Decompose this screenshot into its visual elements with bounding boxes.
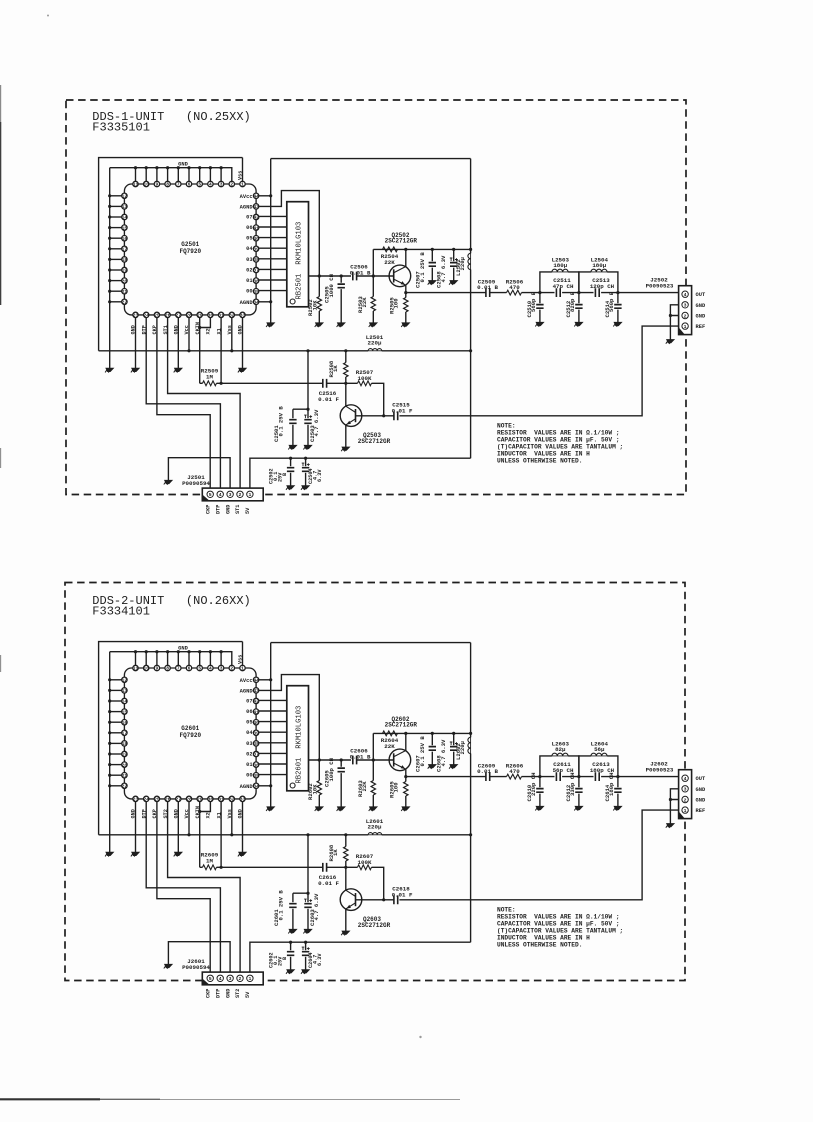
svg-text:4.7 6.3V: 4.7 6.3V xyxy=(440,739,447,766)
resistor R2507 100K xyxy=(346,369,386,417)
inductor L2503 xyxy=(540,256,579,292)
note text block xyxy=(497,422,623,464)
wire to J out xyxy=(601,291,679,294)
capacitor C2515 0.01 F xyxy=(392,402,413,421)
svg-text:RKM10LG103: RKM10LG103 xyxy=(295,706,303,749)
ground C2605 xyxy=(337,807,345,811)
inductor L2601 220u xyxy=(366,818,384,835)
svg-text:56µ: 56µ xyxy=(594,746,605,753)
svg-text:3: 3 xyxy=(229,976,232,982)
svg-text:14: 14 xyxy=(122,215,128,221)
svg-text:42: 42 xyxy=(253,699,259,705)
svg-text:5V: 5V xyxy=(245,507,251,514)
svg-text:820p B: 820p B xyxy=(569,291,576,312)
svg-text:22K: 22K xyxy=(384,743,395,750)
resistor R2608 1K xyxy=(328,835,348,868)
svg-text:06: 06 xyxy=(246,709,252,715)
svg-text:0.1 25V B: 0.1 25V B xyxy=(277,890,284,921)
ground pin27 xyxy=(174,852,182,856)
svg-text:22K: 22K xyxy=(361,781,368,792)
svg-text:1: 1 xyxy=(248,976,251,982)
svg-text:19: 19 xyxy=(122,752,128,758)
wire pin1 Vss to top rail xyxy=(242,158,244,182)
resistor R2606 470 xyxy=(506,762,524,779)
svg-text:3: 3 xyxy=(220,182,223,188)
svg-text:03: 03 xyxy=(246,741,252,747)
svg-text:GND: GND xyxy=(225,989,231,998)
wire AVcc pin44 xyxy=(259,194,272,197)
wire to J out xyxy=(601,775,679,778)
ground R2502 xyxy=(315,323,323,327)
svg-text:18: 18 xyxy=(122,257,128,263)
inductor L2603 xyxy=(540,740,579,776)
svg-text:0.1 25V B: 0.1 25V B xyxy=(419,736,426,767)
ground C2514 xyxy=(613,322,621,326)
AVcc label xyxy=(240,678,253,684)
svg-text:180µ: 180µ xyxy=(553,262,567,269)
svg-text:RESISTOR VALUES ARE IN Ω.1/10: RESISTOR VALUES ARE IN Ω.1/10W ; xyxy=(497,429,620,436)
wire pin27 gnd xyxy=(177,318,179,368)
svg-text:AVcc: AVcc xyxy=(240,678,253,684)
svg-text:Vss: Vss xyxy=(238,171,244,180)
ground J connector xyxy=(666,824,674,828)
ground C2510 xyxy=(535,322,543,326)
svg-text:2: 2 xyxy=(684,797,687,803)
Q2603 label xyxy=(358,916,391,929)
wire q03 collector xyxy=(345,383,347,406)
svg-text:RB2501: RB2501 xyxy=(295,274,303,300)
svg-text:G2501: G2501 xyxy=(181,241,199,248)
ROM RB2601 RKM10LG103 body xyxy=(287,686,309,791)
svg-text:15: 15 xyxy=(122,709,128,715)
wire c16 to node xyxy=(327,866,348,869)
node filter B xyxy=(577,291,580,294)
wire pin28 Vcc xyxy=(188,318,190,351)
wire pin31 X1 xyxy=(220,318,223,385)
svg-text:21: 21 xyxy=(122,773,128,779)
svg-text:0.01 F: 0.01 F xyxy=(318,396,339,403)
ground C2602 xyxy=(286,970,294,974)
wire Vcc rail xyxy=(99,833,471,836)
svg-text:NOTE:: NOTE: xyxy=(497,422,516,429)
svg-text:17: 17 xyxy=(122,731,128,737)
svg-text:5: 5 xyxy=(209,492,212,498)
Q2502 label xyxy=(385,232,418,245)
connector J2602 pin names xyxy=(696,776,706,814)
svg-text:REF: REF xyxy=(696,324,706,330)
svg-text:29: 29 xyxy=(197,797,203,803)
svg-text:3: 3 xyxy=(229,492,232,498)
node filter B xyxy=(577,775,580,778)
wire pin1 Vss to top rail xyxy=(242,642,244,666)
wire right rail upper xyxy=(469,643,472,738)
svg-text:REF: REF xyxy=(696,808,706,814)
IC name label xyxy=(179,725,201,739)
IC pin circles xyxy=(122,665,259,801)
IC pin circles xyxy=(122,181,259,317)
ground C2505 xyxy=(337,323,345,327)
ground pin33 xyxy=(238,368,246,372)
ground pin27 xyxy=(174,368,182,372)
ground C2607 xyxy=(428,765,436,769)
wire vcc drop xyxy=(293,349,310,411)
svg-text:4.7 6.3V: 4.7 6.3V xyxy=(313,409,320,436)
svg-text:00: 00 xyxy=(246,289,252,295)
svg-text:INDUCTOR VALUES ARE IN H: INDUCTOR VALUES ARE IN H xyxy=(497,450,590,457)
ground R2605 xyxy=(401,807,409,811)
wire left pin bus xyxy=(108,652,121,853)
wire left pin bus xyxy=(108,168,121,369)
svg-text:GND: GND xyxy=(225,505,231,514)
svg-text:OUT: OUT xyxy=(696,292,706,298)
resistor R2603 22K xyxy=(357,760,376,807)
svg-text:6: 6 xyxy=(188,666,191,672)
svg-text:02: 02 xyxy=(246,751,252,757)
svg-text:AVcc: AVcc xyxy=(240,194,253,200)
svg-text:4: 4 xyxy=(684,292,687,298)
svg-text:5V: 5V xyxy=(245,991,251,998)
connector J2501 pins xyxy=(207,491,253,498)
svg-text:FQ7920: FQ7920 xyxy=(179,248,201,255)
GND net label xyxy=(178,646,188,652)
wire pin29/30 CKIN X2 xyxy=(198,802,210,868)
resistor R2604 22K xyxy=(381,731,399,750)
svg-text:560p B: 560p B xyxy=(530,291,537,312)
svg-text:39: 39 xyxy=(253,247,259,253)
data bit labels 07-00 xyxy=(246,698,253,778)
ground C2512 xyxy=(574,322,582,326)
capacitor C2516 0.01 F xyxy=(318,379,339,403)
wire c09-r06 xyxy=(490,776,507,778)
svg-text:33: 33 xyxy=(240,797,246,803)
svg-text:B: B xyxy=(282,957,288,960)
svg-text:33: 33 xyxy=(240,313,246,319)
capacitor C2513 xyxy=(590,277,615,297)
svg-text:35: 35 xyxy=(253,289,259,295)
svg-text:20: 20 xyxy=(122,278,128,284)
svg-text:0.1 25V B: 0.1 25V B xyxy=(419,252,426,283)
svg-text:1M: 1M xyxy=(206,373,213,380)
ground C2508 xyxy=(449,281,457,285)
resistor R2508 1K xyxy=(328,351,348,384)
wire REF line xyxy=(399,326,678,416)
svg-text:5: 5 xyxy=(198,666,201,672)
wire AGND pin34 xyxy=(259,785,271,787)
svg-text:ST1: ST1 xyxy=(235,505,241,514)
svg-text:UNLESS OTHERWISE NOTED.: UNLESS OTHERWISE NOTED. xyxy=(497,457,582,464)
svg-text:1: 1 xyxy=(241,182,244,188)
svg-text:330p CH: 330p CH xyxy=(569,773,576,797)
svg-text:4: 4 xyxy=(219,976,222,982)
wire Vss top line xyxy=(99,158,243,351)
svg-text:6.3V: 6.3V xyxy=(317,469,323,482)
wire emitter to C2509 xyxy=(406,776,486,778)
svg-text:16: 16 xyxy=(122,720,128,726)
wire pin26 ST2 route xyxy=(168,802,241,975)
svg-text:13: 13 xyxy=(122,688,128,694)
wire q03 emitter xyxy=(345,909,347,931)
wire c11-c13 xyxy=(562,776,593,778)
svg-text:25: 25 xyxy=(154,313,160,319)
ground R2603 xyxy=(369,807,377,811)
svg-text:30: 30 xyxy=(208,797,214,803)
resistor R2607 100K xyxy=(346,853,386,901)
ground pin23 xyxy=(131,852,139,856)
svg-text:42: 42 xyxy=(253,215,259,221)
svg-text:G2601: G2601 xyxy=(181,725,199,732)
wire pin33 gnd xyxy=(242,318,244,368)
svg-text:12: 12 xyxy=(122,678,128,684)
unit border DDS-2-UNIT (NO.26XX) xyxy=(65,583,685,981)
connector J2501 body xyxy=(202,488,263,501)
svg-text:22: 22 xyxy=(122,784,128,790)
wire emitter xyxy=(404,285,407,294)
svg-text:3: 3 xyxy=(684,303,687,309)
ground J connector xyxy=(666,340,674,344)
wire Vss top line xyxy=(99,642,243,835)
svg-text:00: 00 xyxy=(246,773,252,779)
connector J2502 P0090523 label xyxy=(646,276,674,289)
note text block xyxy=(497,906,623,948)
wire ROM output xyxy=(309,274,352,277)
title text xyxy=(92,594,250,619)
svg-text:6.3V: 6.3V xyxy=(317,953,323,966)
svg-text:44: 44 xyxy=(253,194,259,200)
svg-text:5: 5 xyxy=(198,182,201,188)
svg-text:24: 24 xyxy=(143,797,149,803)
svg-text:16: 16 xyxy=(122,236,128,242)
ground C2614 xyxy=(613,806,621,810)
wire q03 emitter xyxy=(345,425,347,447)
ground C2604 xyxy=(301,970,309,974)
AGND pin34 label xyxy=(240,784,254,790)
svg-text:28: 28 xyxy=(186,797,192,803)
capacitor C2506 0.01 B xyxy=(350,263,371,280)
svg-text:23: 23 xyxy=(133,313,139,319)
svg-text:1: 1 xyxy=(241,666,244,672)
svg-text:B: B xyxy=(282,473,288,476)
svg-text:41: 41 xyxy=(253,225,259,231)
svg-text:18: 18 xyxy=(122,741,128,747)
svg-text:11: 11 xyxy=(133,666,139,672)
capacitor C2608 xyxy=(436,733,458,772)
transistor Q2502 2SC2712GR xyxy=(389,265,411,287)
wire REF line xyxy=(399,810,678,900)
svg-text:28: 28 xyxy=(186,313,192,319)
wire right rail lower xyxy=(469,754,472,943)
svg-text:100p CH: 100p CH xyxy=(328,758,335,782)
svg-text:2: 2 xyxy=(684,313,687,319)
wire Vcc rail xyxy=(99,349,471,352)
Q2503 label xyxy=(358,432,391,445)
svg-text:CKP: CKP xyxy=(205,989,211,998)
svg-text:2SC2712GR: 2SC2712GR xyxy=(385,238,418,245)
svg-text:F3335101: F3335101 xyxy=(92,121,150,135)
capacitor C2505 xyxy=(324,274,345,323)
wire pin25 CKP route xyxy=(157,802,210,975)
svg-text:(T)CAPACITOR VALUES ARE TANTAL: (T)CAPACITOR VALUES ARE TANTALUM ; xyxy=(497,927,623,934)
wire pin32 Vss xyxy=(231,318,233,351)
wire pin24 DTP route xyxy=(146,318,220,491)
svg-text:3: 3 xyxy=(684,787,687,793)
ground C2503 xyxy=(303,445,311,449)
wire collector rail xyxy=(373,732,470,760)
title text xyxy=(92,110,250,135)
svg-text:35: 35 xyxy=(253,773,259,779)
IC pin numbers xyxy=(122,182,259,319)
svg-text:38: 38 xyxy=(253,741,259,747)
svg-text:0.01 F: 0.01 F xyxy=(392,408,413,415)
wire right rail upper xyxy=(469,159,472,254)
capacitor C2511 xyxy=(553,277,574,297)
wire pin24 DTP route xyxy=(146,802,220,975)
svg-text:GND: GND xyxy=(696,798,706,804)
capacitor C2610 xyxy=(526,773,544,807)
wire pin29/30 CKIN X2 xyxy=(198,318,210,384)
svg-text:38: 38 xyxy=(253,257,259,263)
resistor R2505 100 xyxy=(388,293,408,323)
wire AVcc/AGND vertical bus xyxy=(269,643,272,807)
svg-text:6: 6 xyxy=(188,182,191,188)
capacitor C2508 xyxy=(436,249,458,288)
svg-text:10K: 10K xyxy=(311,784,318,795)
svg-text:2: 2 xyxy=(239,976,242,982)
IC G2501 FQ7920 body xyxy=(124,184,256,315)
inductor L2502 220u xyxy=(455,253,471,276)
svg-text:Vss: Vss xyxy=(238,655,244,664)
svg-text:07: 07 xyxy=(246,214,252,220)
svg-text:47p CH: 47p CH xyxy=(553,283,574,290)
svg-text:82µ: 82µ xyxy=(555,746,566,753)
svg-text:12: 12 xyxy=(122,194,128,200)
svg-text:01: 01 xyxy=(246,762,252,768)
ground C2612 xyxy=(574,806,582,810)
svg-text:20: 20 xyxy=(122,762,128,768)
svg-text:0.01 B: 0.01 B xyxy=(477,284,498,291)
svg-text:180p CH: 180p CH xyxy=(608,773,615,797)
connector J2602 body xyxy=(679,770,692,819)
capacitor C2618 0.01 F xyxy=(392,886,413,905)
capacitor C2604 xyxy=(302,942,323,969)
ground left bus xyxy=(105,852,113,856)
svg-text:100K: 100K xyxy=(358,375,372,382)
svg-text:27: 27 xyxy=(176,797,182,803)
svg-text:9: 9 xyxy=(156,182,159,188)
wire pin28 Vcc xyxy=(188,802,190,835)
svg-text:RESISTOR VALUES ARE IN Ω.1/10: RESISTOR VALUES ARE IN Ω.1/10W ; xyxy=(497,913,620,920)
wire emitter xyxy=(404,769,407,778)
wire data lines 07-00 xyxy=(259,216,287,290)
wire pin32 Vss xyxy=(231,802,233,835)
scan artifact left edge xyxy=(0,85,2,672)
wire vcc drop xyxy=(293,833,310,895)
svg-text:24: 24 xyxy=(143,313,149,319)
GND net label xyxy=(178,162,188,168)
svg-text:02: 02 xyxy=(246,267,252,273)
svg-text:CAPACITOR VALUES ARE IN µF. 50: CAPACITOR VALUES ARE IN µF. 50V ; xyxy=(497,436,620,443)
svg-text:INDUCTOR VALUES ARE IN H: INDUCTOR VALUES ARE IN H xyxy=(497,934,590,941)
svg-text:03: 03 xyxy=(246,257,252,263)
connector J2501 P0090594 label xyxy=(182,474,210,487)
ground AVcc bus xyxy=(266,323,274,327)
wire AVcc pin44 xyxy=(259,678,272,681)
connector J2601 body xyxy=(202,972,263,985)
svg-text:GND: GND xyxy=(696,314,706,320)
wire c16 to node xyxy=(327,382,348,385)
capacitor C2613 xyxy=(590,761,615,781)
scan artifact dots xyxy=(47,15,422,1039)
svg-text:8: 8 xyxy=(166,666,169,672)
svg-text:5: 5 xyxy=(209,976,212,982)
ROM name label xyxy=(295,222,303,300)
svg-text:100K: 100K xyxy=(358,859,372,866)
capacitor C2605 xyxy=(324,758,345,807)
wire 5V line xyxy=(250,941,471,975)
svg-text:560p B: 560p B xyxy=(608,291,615,312)
svg-text:05: 05 xyxy=(246,236,252,242)
svg-text:40: 40 xyxy=(253,720,259,726)
inductor L2602 220u xyxy=(455,737,471,760)
resistor R2503 22K xyxy=(357,276,376,323)
node filter A xyxy=(538,291,541,294)
svg-text:(T)CAPACITOR VALUES ARE TANTAL: (T)CAPACITOR VALUES ARE TANTALUM ; xyxy=(497,443,623,450)
svg-text:3: 3 xyxy=(220,666,223,672)
svg-text:P0090594: P0090594 xyxy=(182,480,210,487)
svg-text:FQ7920: FQ7920 xyxy=(179,732,201,739)
wire pin26 ST1 route xyxy=(168,318,241,491)
svg-text:1K: 1K xyxy=(332,849,339,856)
connector J2601 pins xyxy=(207,975,253,982)
wire J gnd pins xyxy=(669,789,679,824)
inductor L2604 xyxy=(579,740,618,776)
capacitor C2501 xyxy=(273,406,297,446)
svg-text:1: 1 xyxy=(684,808,687,814)
svg-text:2: 2 xyxy=(230,182,233,188)
svg-text:2: 2 xyxy=(239,492,242,498)
wire AGND pin34 xyxy=(259,301,271,303)
IC name label xyxy=(179,241,201,255)
svg-text:40: 40 xyxy=(253,236,259,242)
ground jog xyxy=(164,964,172,968)
connector J2502 pins xyxy=(682,291,688,330)
svg-text:39: 39 xyxy=(253,731,259,737)
svg-text:AGND: AGND xyxy=(240,204,254,210)
svg-text:43: 43 xyxy=(253,688,259,694)
node filter A xyxy=(538,775,541,778)
wire to base Q xyxy=(357,274,394,277)
Vss pin1 label xyxy=(238,655,244,664)
svg-text:P0090523: P0090523 xyxy=(646,766,674,773)
capacitor C2616 0.01 F xyxy=(318,863,339,887)
capacitor C2512 xyxy=(565,291,583,322)
ground R2503 xyxy=(369,323,377,327)
IC bottom pin name labels xyxy=(131,806,244,818)
ground AVcc bus xyxy=(266,807,274,811)
svg-text:4: 4 xyxy=(209,666,212,672)
svg-text:2SC2712GR: 2SC2712GR xyxy=(358,922,391,929)
svg-text:DTP: DTP xyxy=(215,505,221,514)
wire pin23 gnd xyxy=(135,318,137,368)
capacitor C2502 xyxy=(268,458,294,485)
wire r06 to filter xyxy=(522,776,555,778)
svg-text:15: 15 xyxy=(122,225,128,231)
resistor R2504 22K xyxy=(381,247,399,266)
svg-text:11: 11 xyxy=(133,182,139,188)
wire AGND pin43 to ROM frame xyxy=(259,191,319,276)
svg-text:30: 30 xyxy=(208,313,214,319)
svg-text:AGND: AGND xyxy=(240,688,254,694)
capacitor C2514 xyxy=(604,291,622,322)
